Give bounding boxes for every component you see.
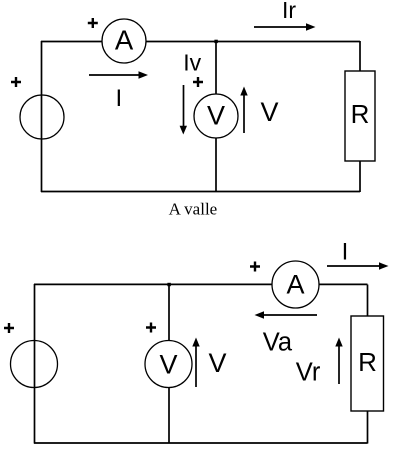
current arrow Iv (down) bbox=[180, 85, 187, 135]
svg-text:Vr: Vr bbox=[296, 358, 321, 386]
svg-text:Iv: Iv bbox=[183, 50, 201, 76]
voltage source E1 (top circuit) bbox=[20, 95, 64, 139]
svg-text:I: I bbox=[342, 239, 349, 266]
current arrow I (bottom circuit) bbox=[327, 262, 389, 269]
svg-text:A: A bbox=[115, 25, 134, 56]
svg-text:A: A bbox=[286, 270, 304, 300]
svg-text:Ir: Ir bbox=[282, 0, 296, 23]
current arrow Ir bbox=[254, 23, 316, 30]
wire: top circuit right side bbox=[359, 41, 361, 192]
svg-text:V: V bbox=[207, 101, 225, 131]
wire: top circuit left side bbox=[41, 41, 43, 192]
voltmeter V (bottom circuit) bbox=[145, 341, 192, 388]
node: junction of voltmeter branch and top wire bbox=[214, 40, 217, 43]
ammeter A (top circuit) bbox=[102, 19, 146, 63]
voltage source E2 (bottom circuit) bbox=[11, 341, 58, 388]
node: junction of voltmeter branch and top wire (bottom circuit) bbox=[167, 283, 170, 286]
svg-text:R: R bbox=[358, 347, 377, 377]
wire: bottom circuit middle voltmeter branch bbox=[168, 285, 170, 444]
resistor R (top circuit) bbox=[345, 71, 375, 161]
svg-text:V: V bbox=[209, 348, 227, 378]
polarity + of source E2 bbox=[4, 323, 14, 333]
polarity + of source E1 bbox=[11, 77, 21, 87]
voltage arrow Vr (up) bbox=[335, 338, 342, 385]
wire: top circuit top side bbox=[41, 41, 360, 43]
wire: top circuit middle voltmeter branch bbox=[215, 41, 217, 192]
polarity + of voltmeter (top) bbox=[193, 77, 203, 87]
resistor R (bottom circuit) bbox=[351, 316, 384, 411]
voltage arrow V (up, bottom circuit) bbox=[192, 338, 199, 388]
svg-text:V: V bbox=[159, 350, 177, 380]
wire: bottom circuit top side bbox=[34, 283, 368, 285]
polarity + of ammeter (bottom) bbox=[250, 262, 260, 272]
current arrow I (top circuit) bbox=[89, 71, 148, 79]
svg-text:R: R bbox=[351, 99, 370, 129]
wire: bottom circuit right side bbox=[367, 285, 369, 444]
voltmeter V (top circuit) bbox=[194, 94, 238, 138]
svg-text:A valle: A valle bbox=[169, 200, 218, 219]
wire: top circuit bottom side bbox=[41, 191, 360, 193]
svg-text:I: I bbox=[115, 85, 122, 112]
wire: bottom circuit left side bbox=[34, 284, 36, 444]
svg-text:V: V bbox=[261, 97, 279, 127]
voltage arrow V (up, top circuit) bbox=[240, 87, 247, 134]
ammeter A (bottom circuit) bbox=[272, 261, 319, 308]
voltage arrow Va (left) bbox=[255, 311, 318, 318]
polarity + of ammeter bbox=[88, 18, 98, 28]
polarity + of voltmeter (bottom) bbox=[146, 323, 156, 333]
svg-text:Va: Va bbox=[263, 328, 293, 356]
wire: bottom circuit bottom side bbox=[34, 442, 368, 444]
